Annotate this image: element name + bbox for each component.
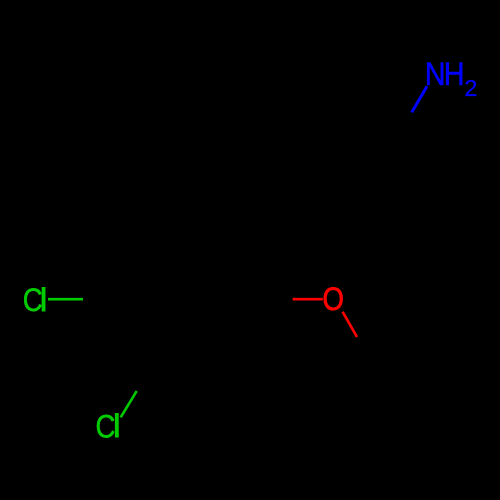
wire: chain C5-Ca-Cb (black, invisible) bbox=[226, 139, 396, 237]
bond C2-Cl2 green half bbox=[121, 391, 137, 417]
bond C4-O red half bbox=[293, 298, 323, 301]
bond C1-Cl1 green half bbox=[48, 298, 83, 301]
wire: black half of bond Cb-N bbox=[396, 112, 411, 138]
svg-text:2: 2 bbox=[464, 75, 477, 101]
bond Cb-N blue half bbox=[412, 86, 427, 112]
wire: black half of bond C4-O bbox=[262, 298, 293, 301]
wire: black half of bond C1-Cl1 bbox=[83, 298, 118, 301]
wire: black half of bond O-CH3 bbox=[357, 337, 372, 362]
svg-text:l: l bbox=[40, 282, 47, 318]
svg-text:l: l bbox=[113, 408, 120, 444]
svg-text:N: N bbox=[425, 57, 446, 93]
benzene ring C1-C6 (black bonds, invisible on black background) bbox=[118, 237, 262, 362]
wire: black half of bond C2-Cl2 bbox=[137, 361, 154, 391]
bond O-CH3 red half bbox=[343, 312, 357, 337]
svg-text:H: H bbox=[444, 57, 465, 93]
svg-text:O: O bbox=[323, 282, 344, 317]
